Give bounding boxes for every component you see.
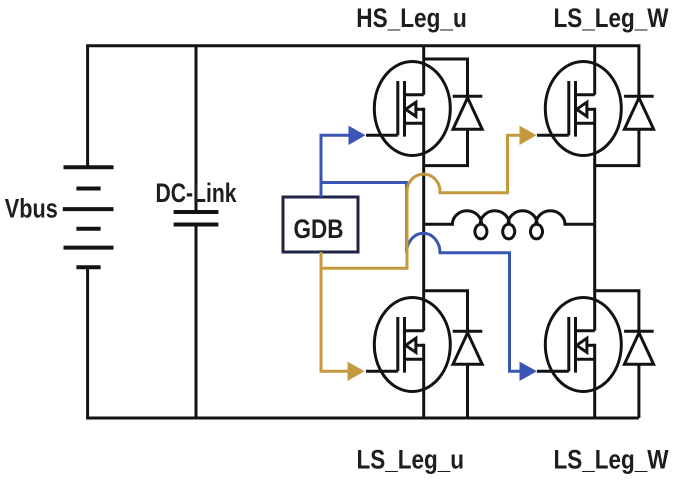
svg-text:HS_Leg_u: HS_Leg_u xyxy=(356,3,467,33)
svg-text:LS_Leg_u: LS_Leg_u xyxy=(357,445,465,475)
svg-text:DC-Link: DC-Link xyxy=(156,178,238,208)
svg-text:GDB: GDB xyxy=(294,214,344,244)
svg-text:Vbus: Vbus xyxy=(5,194,58,224)
svg-text:LS_Leg_W: LS_Leg_W xyxy=(554,3,669,33)
svg-text:LS_Leg_W: LS_Leg_W xyxy=(554,445,669,475)
